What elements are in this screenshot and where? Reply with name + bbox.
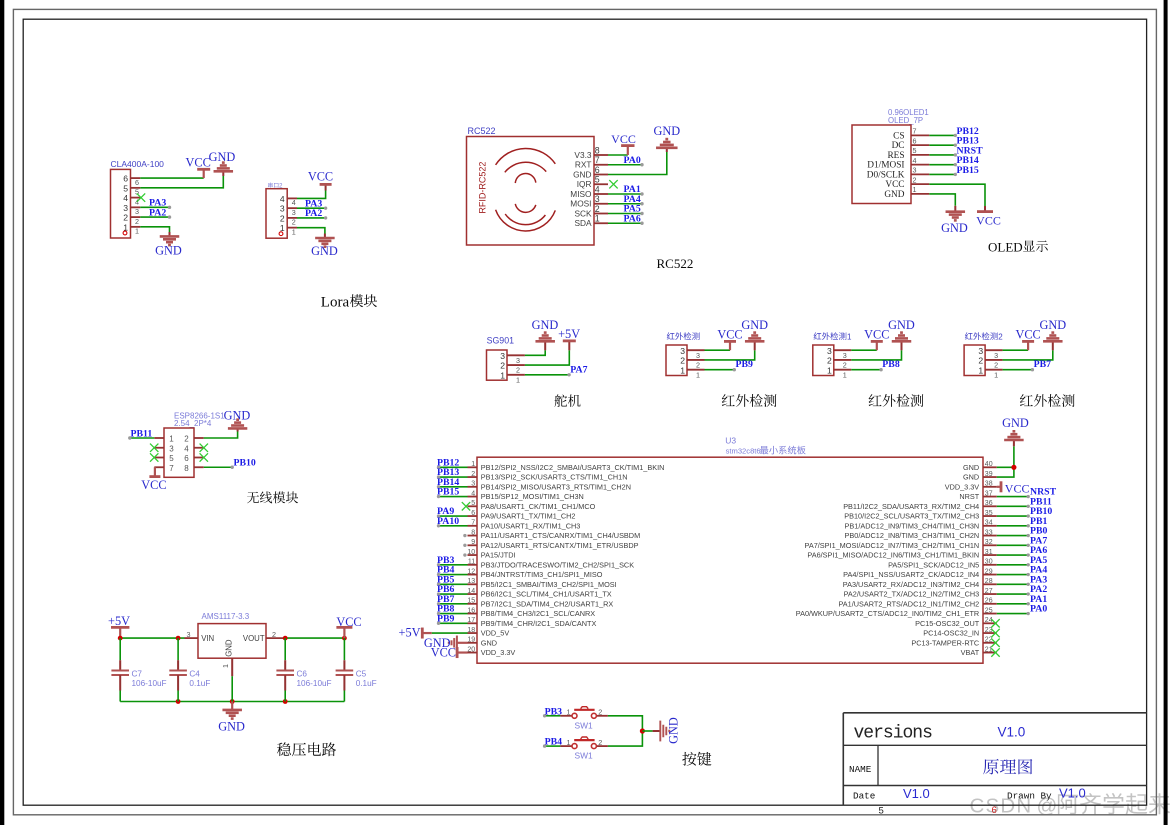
svg-text:PB3/JTDO/TRACESWO/TIM2_CH2/SPI: PB3/JTDO/TRACESWO/TIM2_CH2/SPI1_SCK xyxy=(481,560,634,569)
svg-text:D0/SCLK: D0/SCLK xyxy=(867,170,905,180)
section label 按键 xyxy=(682,752,711,766)
screen edge strip left xyxy=(0,0,4,825)
svg-text:1: 1 xyxy=(595,214,600,224)
serial header pin numbers xyxy=(280,194,296,237)
svg-text:2: 2 xyxy=(913,175,917,184)
svg-text:Lora: Lora xyxy=(321,295,350,311)
capacitor C5 labels xyxy=(356,669,377,688)
svg-text:7: 7 xyxy=(595,155,600,165)
svg-text:0.1uF: 0.1uF xyxy=(356,679,377,688)
wire MCU pin27 PA2 xyxy=(997,592,1030,595)
wire IR pin2 GND (PB9) xyxy=(705,341,755,360)
section label 舵机 xyxy=(555,395,581,407)
wire MCU pin18 +5V xyxy=(422,632,467,634)
wire pin1 to GND xyxy=(297,228,325,238)
svg-text:3: 3 xyxy=(913,166,917,175)
connector CLA400A-100 outline xyxy=(111,169,131,238)
wire MCU pin14 PB6 xyxy=(437,592,468,595)
svg-text:7: 7 xyxy=(913,127,917,136)
wire MCU pin17 PB9 xyxy=(437,622,468,625)
svg-text:GND: GND xyxy=(963,463,979,472)
svg-text:PB13/SPI2_SCK/USART3_CTS/TIM1_: PB13/SPI2_SCK/USART3_CTS/TIM1_CH1N xyxy=(481,473,628,482)
IR sensor header 红外检测2 refdes xyxy=(965,332,1003,341)
wire MCU pin16 PB8 xyxy=(437,612,468,615)
svg-text:2: 2 xyxy=(843,361,847,370)
svg-text:VCC: VCC xyxy=(186,156,211,170)
IR module pin stubs (PB7) xyxy=(985,350,1003,370)
svg-text:GND: GND xyxy=(209,150,236,164)
svg-text:2: 2 xyxy=(680,356,685,366)
module RC522 outline xyxy=(467,137,595,246)
svg-text:RC522: RC522 xyxy=(657,256,694,271)
svg-text:3: 3 xyxy=(696,351,700,360)
svg-text:3: 3 xyxy=(827,346,832,356)
wire SG901 pin3 GND xyxy=(525,341,545,355)
svg-text:2: 2 xyxy=(598,708,602,717)
svg-text:Drawn By: Drawn By xyxy=(1007,790,1052,801)
power VCC (RC522) xyxy=(611,132,636,155)
svg-text:IQR: IQR xyxy=(577,179,592,189)
junction (C6 bottom) xyxy=(283,699,288,704)
wire pin5 to GND xyxy=(140,171,223,188)
wire GND (RC522) xyxy=(608,148,667,175)
junction (buttons) xyxy=(640,728,645,733)
svg-text:PA8/USART1_CK/TIM1_CH1/MCO: PA8/USART1_CK/TIM1_CH1/MCO xyxy=(481,502,596,511)
power VCC (OLED) xyxy=(976,212,1001,228)
module RC522 refdes xyxy=(468,126,496,136)
svg-text:PA9/USART1_TX/TIM1_CH2: PA9/USART1_TX/TIM1_CH2 xyxy=(481,512,576,521)
wire MOSI PA4 xyxy=(608,202,644,205)
svg-text:PB9: PB9 xyxy=(437,613,455,624)
serial header pin1 indicator xyxy=(279,232,283,236)
title version number V1.0 xyxy=(998,725,1026,740)
wire MISO PA1 xyxy=(608,192,644,195)
wire SDA PA6 xyxy=(608,222,644,225)
svg-text:1: 1 xyxy=(500,370,505,380)
svg-text:PB0/ADC12_IN8/TIM3_CH3/TIM1_CH: PB0/ADC12_IN8/TIM3_CH3/TIM1_CH2N xyxy=(845,531,980,540)
svg-text:PA7/SPI1_MOSI/ADC12_IN7/TIM3_C: PA7/SPI1_MOSI/ADC12_IN7/TIM3_CH2/TIM1_CH… xyxy=(805,541,980,550)
svg-text:OLED_7P: OLED_7P xyxy=(888,116,923,125)
svg-text:PA2: PA2 xyxy=(305,208,322,219)
switch SW1 (PB4) refdes xyxy=(575,751,593,761)
svg-text:PA7: PA7 xyxy=(570,364,587,375)
wire MCU pin37 NRST xyxy=(997,495,1030,498)
svg-text:1: 1 xyxy=(827,365,832,375)
AMS1117 GND stub xyxy=(231,658,233,676)
junction (VCC top) xyxy=(342,636,347,641)
MCU right pin stubs xyxy=(983,467,997,652)
svg-text:SG901: SG901 xyxy=(487,336,514,346)
IR module pin stubs (PB9) xyxy=(687,350,705,370)
net label PA3 (serial) xyxy=(305,198,322,209)
svg-text:PB15: PB15 xyxy=(957,165,979,176)
ground (CLA400A top) xyxy=(209,150,236,171)
wire MCU pin19 GND xyxy=(457,642,468,644)
wire SCK PA5 xyxy=(608,212,644,215)
svg-text:1: 1 xyxy=(843,370,847,379)
junction (+5V) xyxy=(118,636,123,641)
ground (SG901) xyxy=(532,318,559,341)
net label NRST (OLED) xyxy=(957,145,984,156)
svg-text:GND: GND xyxy=(573,169,591,179)
section label Lora模块 xyxy=(321,294,377,310)
wire OLED PB13 xyxy=(929,143,957,146)
svg-text:2: 2 xyxy=(292,218,296,227)
svg-text:PB9/TIM4_CHR/I2C1_SDA/CANTX: PB9/TIM4_CHR/I2C1_SDA/CANTX xyxy=(481,619,597,628)
capacitor C7 xyxy=(111,638,129,701)
wire PB4 switch to junction xyxy=(608,731,643,746)
svg-text:2: 2 xyxy=(123,213,128,223)
svg-text:PC15-OSC32_OUT: PC15-OSC32_OUT xyxy=(915,619,980,628)
svg-text:NRST: NRST xyxy=(959,492,979,501)
wire IR pin2 GND (PB7) xyxy=(1003,341,1053,360)
net label PA5 xyxy=(624,204,641,215)
svg-text:2: 2 xyxy=(500,361,505,371)
ground (buttons) xyxy=(660,717,680,744)
svg-text:OLED: OLED xyxy=(988,239,1023,254)
display OLED outline xyxy=(852,125,911,204)
svg-text:C7: C7 xyxy=(132,669,143,678)
svg-text:GND: GND xyxy=(1002,416,1029,430)
svg-text:1: 1 xyxy=(135,227,139,236)
svg-text:VDD_3.3V: VDD_3.3V xyxy=(481,648,516,657)
svg-text:5: 5 xyxy=(169,454,174,463)
svg-text:5: 5 xyxy=(913,146,917,155)
svg-text:VOUT: VOUT xyxy=(243,634,265,643)
section label 红外检测 (PB8) xyxy=(869,394,924,407)
svg-text:PB4/JNTRST/TIM3_CH1/SPI1_MISO: PB4/JNTRST/TIM3_CH1/SPI1_MISO xyxy=(481,570,603,579)
svg-text:CLA400A-100: CLA400A-100 xyxy=(111,159,165,169)
svg-text:VCC: VCC xyxy=(141,478,166,492)
svg-text:MOSI: MOSI xyxy=(570,199,591,209)
svg-text:V1.0: V1.0 xyxy=(903,786,930,801)
wire ESP pin8 PB10 xyxy=(204,466,234,469)
wire SG901 pin1 PA7 xyxy=(525,373,571,376)
wire PB3 switch to junction xyxy=(608,716,643,731)
svg-text:PA0/WKUP/USART2_CTS/ADC12_IN0/: PA0/WKUP/USART2_CTS/ADC12_IN0/TIM2_CH1_E… xyxy=(796,609,979,618)
wire ESP pin2 GND xyxy=(204,428,238,438)
no-connect X ESP pin3 xyxy=(150,444,158,452)
svg-text:1: 1 xyxy=(978,365,983,375)
ground (IR PB9) xyxy=(741,318,768,342)
svg-text:V1.0: V1.0 xyxy=(1059,786,1086,801)
serial header pin stubs xyxy=(287,198,297,227)
svg-text:PA5/SPI1_SCK/ADC12_IN5: PA5/SPI1_SCK/ADC12_IN5 xyxy=(888,560,979,569)
wire MCU pin36 PB11 xyxy=(997,505,1030,508)
svg-text:PB4: PB4 xyxy=(545,737,563,748)
net label PB15 (MCU) xyxy=(437,487,459,498)
net label PB7 xyxy=(1034,359,1052,370)
title Date xyxy=(853,790,875,801)
OLED pin stubs xyxy=(911,135,929,194)
svg-text:GND: GND xyxy=(741,318,768,332)
wire MCU pin15 PB7 xyxy=(437,602,468,605)
svg-text:SDA: SDA xyxy=(574,218,592,228)
net label PA2 xyxy=(149,207,166,218)
svg-text:GND: GND xyxy=(224,409,251,423)
svg-text:PB15: PB15 xyxy=(437,487,459,498)
svg-text:3: 3 xyxy=(516,356,520,365)
regulator AMS1117-3.3 refdes xyxy=(202,612,250,621)
svg-text:stm32c8t6: stm32c8t6 xyxy=(726,447,761,456)
ground (regulator) xyxy=(218,702,245,734)
capacitor C4 xyxy=(169,638,187,701)
RC522 pin names and numbers xyxy=(570,145,600,228)
net label PB11 xyxy=(131,428,153,439)
svg-text:PB7: PB7 xyxy=(1034,359,1052,370)
svg-text:+5V: +5V xyxy=(558,327,580,341)
svg-text:1: 1 xyxy=(994,370,998,379)
ground (RC522) xyxy=(653,124,680,148)
power +5V (regulator) xyxy=(108,614,130,638)
MCU pin9 open port xyxy=(463,544,466,547)
title block frame xyxy=(843,713,1146,805)
net label PB12 (MCU) xyxy=(437,457,459,468)
svg-text:PB5/I2C1_SMBAI/TIM3_CH2/SPI1_M: PB5/I2C1_SMBAI/TIM3_CH2/SPI1_MOSI xyxy=(481,580,617,589)
svg-text:2: 2 xyxy=(978,356,983,366)
display OLED value OLED_7P xyxy=(888,116,923,125)
regulator AMS1117 outline xyxy=(198,624,266,659)
svg-text:6: 6 xyxy=(595,165,600,175)
ground (CLA400A bottom) xyxy=(155,236,182,257)
svg-text:VCC: VCC xyxy=(1015,327,1040,341)
wire MCU pin29 PA4 xyxy=(997,573,1030,576)
wire MCU pin13 PB5 xyxy=(437,583,468,586)
svg-text:+5V: +5V xyxy=(399,626,421,640)
svg-text:6: 6 xyxy=(992,805,997,816)
IR module pin numbers (PB8) xyxy=(827,346,847,380)
title NAME xyxy=(849,764,872,775)
svg-text:3: 3 xyxy=(595,194,600,204)
svg-text:2: 2 xyxy=(516,366,520,375)
svg-text:V1.0: V1.0 xyxy=(998,725,1026,740)
svg-text:3: 3 xyxy=(843,351,847,360)
svg-text:PA6/SPI1_MISO/ADC12_IN6/TIM3_C: PA6/SPI1_MISO/ADC12_IN6/TIM3_CH1/TIM1_BK… xyxy=(807,551,979,560)
svg-text:GND: GND xyxy=(963,473,979,482)
net label PA7 (MCU right) xyxy=(1030,535,1047,546)
wire MCU pin20 VCC xyxy=(457,651,467,653)
wire RXT PA0 xyxy=(608,163,644,166)
switch SW1 (PB4) pin leads xyxy=(560,738,608,747)
svg-text:PB8: PB8 xyxy=(882,359,900,370)
svg-text:2: 2 xyxy=(998,332,1003,341)
module ESP8266 value 2.54_2P*4 xyxy=(174,419,212,428)
svg-text:PB14/SPI2_MISO/USART3_RTS/TIM1: PB14/SPI2_MISO/USART3_RTS/TIM1_CH2N xyxy=(481,482,631,491)
section label RC522 xyxy=(657,256,694,271)
wire junction to GND xyxy=(642,730,660,732)
no-connect X MCU pin5 xyxy=(462,502,470,510)
wire OLED PB15 xyxy=(929,173,957,176)
ground (OLED) xyxy=(941,212,968,235)
MCU pin8 open port xyxy=(463,534,466,537)
servo header outline xyxy=(487,350,508,380)
svg-text:GND: GND xyxy=(481,638,497,647)
ground (serial) xyxy=(311,238,338,258)
servo header SG901 refdes xyxy=(487,336,514,346)
svg-text:5: 5 xyxy=(123,183,128,193)
power +5V (MCU) xyxy=(399,626,423,640)
switch SW1 (PB3) pin leads xyxy=(560,708,608,717)
wire AMS GND to rail xyxy=(231,676,233,701)
svg-text:2: 2 xyxy=(994,361,998,370)
svg-text:3: 3 xyxy=(978,346,983,356)
net label PA2 (MCU right) xyxy=(1030,584,1047,595)
net label PB7 (MCU) xyxy=(437,594,455,605)
svg-text:RES: RES xyxy=(887,151,904,161)
display OLED refdes 0.96OLED1 xyxy=(888,108,929,117)
no-connect X MCU pin21 xyxy=(991,648,999,656)
net label PB12 (OLED) xyxy=(957,126,979,137)
svg-text:VCC: VCC xyxy=(336,615,361,629)
svg-text:1: 1 xyxy=(696,370,700,379)
svg-text:PA10/USART1_RX/TIM1_CH3: PA10/USART1_RX/TIM1_CH3 xyxy=(481,521,581,530)
svg-text:3: 3 xyxy=(500,351,505,361)
svg-text:GND: GND xyxy=(225,639,234,657)
net label PA6 (MCU right) xyxy=(1030,545,1047,556)
no-connect X MCU pin24 xyxy=(991,619,999,627)
power VCC (MCU right) xyxy=(1001,481,1029,495)
title Drawn By xyxy=(1007,790,1052,801)
section label 红外检测 (PB7) xyxy=(1020,394,1075,407)
RC522 antenna arcs xyxy=(496,148,556,230)
net label PB15 (OLED) xyxy=(957,165,979,176)
capacitor C6 labels xyxy=(297,669,332,688)
MCU left pin names and numbers xyxy=(467,461,664,657)
svg-text:1: 1 xyxy=(913,185,917,194)
svg-text:VCC: VCC xyxy=(611,132,636,146)
wire MCU pin33 PB0 xyxy=(997,534,1030,537)
wire MCU pin26 PA1 xyxy=(997,602,1030,605)
ground (IR PB8) xyxy=(888,318,915,342)
net label PB3 (MCU) xyxy=(437,555,455,566)
svg-text:C4: C4 xyxy=(189,669,200,678)
svg-text:PC13-TAMPER-RTC: PC13-TAMPER-RTC xyxy=(911,638,979,647)
MCU U3 value stm32c8t6最小系统板 xyxy=(726,446,806,456)
svg-text:PB11/I2C2_SDA/USART3_RX/TIM2_C: PB11/I2C2_SDA/USART3_RX/TIM2_CH4 xyxy=(843,502,979,511)
svg-text:7: 7 xyxy=(169,464,174,473)
MCU U3 outline xyxy=(477,457,983,663)
svg-text:5: 5 xyxy=(879,806,884,817)
switch SW1 (PB3) refdes xyxy=(575,720,593,730)
svg-text:C6: C6 xyxy=(297,669,308,678)
MCU left pin stubs xyxy=(468,467,478,652)
screen edge strip right xyxy=(1164,0,1168,825)
svg-text:GND: GND xyxy=(311,244,338,258)
svg-text:PA10: PA10 xyxy=(437,516,459,527)
svg-text:PA0: PA0 xyxy=(624,155,641,166)
wire IR pin3 VCC (PB8) xyxy=(851,341,877,350)
power VCC (regulator) xyxy=(336,615,361,638)
junction (GND bottom) xyxy=(230,699,235,704)
CLA400A pin numbers xyxy=(123,174,139,236)
switch SW1 (PB4) contacts xyxy=(572,744,596,749)
svg-text:1: 1 xyxy=(169,435,174,444)
svg-text:VCC: VCC xyxy=(864,327,889,341)
wire OLED PB12 xyxy=(929,134,957,137)
wire MCU pin28 PA3 xyxy=(997,583,1030,586)
svg-text:GND: GND xyxy=(218,720,245,734)
wire IR pin1 PB8 xyxy=(851,368,883,371)
wire IR pin1 PB9 xyxy=(705,368,737,371)
svg-text:6: 6 xyxy=(184,454,189,463)
net label PB1 (MCU right) xyxy=(1030,516,1048,527)
AMS1117 pin names xyxy=(187,630,277,668)
IR sensor header outline (PB9) xyxy=(666,345,687,376)
wire SG901 pin2 +5V xyxy=(525,341,569,365)
junction (C4 bottom) xyxy=(176,699,181,704)
IR module pin numbers (PB9) xyxy=(680,346,700,380)
svg-text:SW1: SW1 xyxy=(575,720,593,730)
svg-text:3: 3 xyxy=(292,208,296,217)
SG901 pin numbers xyxy=(500,351,520,385)
svg-text:3: 3 xyxy=(135,207,139,216)
svg-text:GND: GND xyxy=(155,244,182,258)
svg-text:8: 8 xyxy=(595,145,600,155)
net label PB13 (OLED) xyxy=(957,136,979,147)
ground (IR PB7) xyxy=(1039,318,1066,342)
border grid number 6 xyxy=(992,805,997,816)
wire IR pin3 VCC (PB7) xyxy=(1003,341,1029,350)
section label 红外检测 (PB9) xyxy=(722,394,777,407)
power VCC (IR PB8) xyxy=(864,327,889,341)
switch SW1 (PB4) actuator xyxy=(574,737,594,740)
wire MCU pin3 PB14 xyxy=(437,485,468,488)
wire IR pin3 VCC (PB9) xyxy=(705,341,731,350)
svg-text:4: 4 xyxy=(292,198,296,207)
svg-text:RFID-RC522: RFID-RC522 xyxy=(478,162,488,214)
module ESP8266-1S1 refdes xyxy=(174,412,225,421)
wire pin6 to VCC xyxy=(140,177,203,179)
svg-text:U3: U3 xyxy=(725,435,736,445)
capacitor C4 labels xyxy=(189,669,210,688)
wire MCU pin1 PB12 xyxy=(437,466,468,469)
svg-text:D1/MOSI: D1/MOSI xyxy=(867,161,904,171)
no-connect X IQR xyxy=(609,180,617,188)
MCU pin10 open port xyxy=(463,553,466,556)
svg-text:PA12/USART1_RTS/CANTX/TIM1_ETR: PA12/USART1_RTS/CANTX/TIM1_ETR/USBDP xyxy=(481,541,639,550)
svg-text:PB12/SPI2_NSS/I2C2_SMBAI/USART: PB12/SPI2_NSS/I2C2_SMBAI/USART3_CK/TIM1_… xyxy=(481,463,665,472)
net label PB8 xyxy=(882,359,900,370)
title versions xyxy=(854,724,933,744)
power VCC (serial) xyxy=(308,169,333,184)
svg-text:4: 4 xyxy=(595,184,600,194)
svg-text:PB10/I2C2_SCL/USART3_TX/TIM2_C: PB10/I2C2_SCL/USART3_TX/TIM2_CH3 xyxy=(844,512,979,521)
svg-text:PA15/JTDI: PA15/JTDI xyxy=(481,551,516,560)
svg-text:6: 6 xyxy=(913,136,917,145)
svg-text:PA2/USART2_TX/ADC12_IN2/TIM2_C: PA2/USART2_TX/ADC12_IN2/TIM2_CH3 xyxy=(844,590,980,599)
svg-text:SW1: SW1 xyxy=(575,751,593,761)
svg-text:VDD_5V: VDD_5V xyxy=(481,629,510,638)
net label PA1 xyxy=(624,184,641,195)
SG901 pin stubs xyxy=(507,355,525,375)
net label PB11 (MCU right) xyxy=(1030,496,1052,507)
net label PB6 (MCU) xyxy=(437,584,455,595)
capacitor C5 xyxy=(336,638,354,701)
capacitor C7 labels xyxy=(132,669,167,688)
net label PA2 (serial) xyxy=(305,208,322,219)
svg-text:VCC: VCC xyxy=(1005,481,1030,495)
svg-text:versions: versions xyxy=(854,724,933,744)
watermark CSDN xyxy=(970,793,1170,818)
svg-text:PB9: PB9 xyxy=(736,359,754,370)
svg-text:VCC: VCC xyxy=(885,180,904,190)
no-connect X pin4 xyxy=(137,193,145,201)
net label PB8 (MCU) xyxy=(437,604,455,615)
RC522 pin stubs xyxy=(594,155,608,223)
svg-text:PA0: PA0 xyxy=(1030,604,1047,615)
IR sensor header 红外检测 refdes xyxy=(667,332,700,340)
title drawn V1.0 xyxy=(1059,786,1086,801)
